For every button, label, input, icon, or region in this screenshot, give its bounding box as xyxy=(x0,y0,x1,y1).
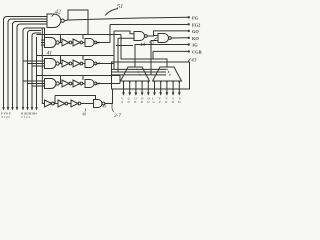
wire bus A2 xyxy=(8,19,47,107)
wire bus B1 xyxy=(23,28,45,107)
arrow terminal A4 xyxy=(16,107,18,110)
end gate 47 xyxy=(85,60,94,68)
wire mux1 input stubs xyxy=(124,81,149,93)
wire corner x68 xyxy=(68,10,88,35)
node CGB xyxy=(188,50,190,52)
wire 1G from mux1 xyxy=(135,45,188,68)
inverter row2 b xyxy=(73,60,80,67)
wire gate45 input vertical xyxy=(150,41,152,75)
wire row1 topline drops xyxy=(61,35,84,43)
wire row4 topline xyxy=(55,96,96,104)
svg-text:CGB: CGB xyxy=(192,49,202,54)
wire gate45 output to KO xyxy=(171,37,187,39)
wire FG2 xyxy=(110,24,188,26)
svg-text:43: 43 xyxy=(191,58,197,64)
wire gate44 output to GO xyxy=(147,31,187,36)
wire long vertical to row4 xyxy=(42,28,44,104)
end gate 48 xyxy=(85,80,94,88)
inverter row3 b xyxy=(73,80,80,87)
wire row4 output xyxy=(105,89,113,104)
leader for 51 xyxy=(105,9,118,16)
box 43 xyxy=(112,62,190,89)
gate 45 xyxy=(158,34,169,43)
wire row4 xyxy=(54,103,58,105)
arrow terminal A3 xyxy=(12,107,14,110)
wire row2 output xyxy=(97,63,114,65)
wire bus A3 xyxy=(13,22,48,108)
node FG xyxy=(188,16,190,18)
wire row1 output xyxy=(97,42,110,44)
wire row1 to inv1 xyxy=(59,42,62,44)
svg-text:42: 42 xyxy=(55,9,61,16)
arrow terminal A1 xyxy=(3,107,5,110)
node 1G xyxy=(188,43,190,45)
wire CGB from mux2 xyxy=(121,35,188,68)
wire row3 nand inputs xyxy=(23,81,45,86)
wire vertical x114 xyxy=(113,31,115,69)
svg-text:0 1 2 3: 0 1 2 3 xyxy=(2,115,11,119)
wire row2 to inv1 xyxy=(59,63,62,65)
wire bus A1 xyxy=(4,17,48,108)
gate 44 xyxy=(134,32,145,41)
mux 1 trapezoid xyxy=(121,67,150,81)
nand gate row2 xyxy=(45,59,57,69)
wire row3 output xyxy=(97,83,120,85)
svg-text:FG: FG xyxy=(192,15,199,20)
wire mux2 input stubs xyxy=(155,81,180,93)
svg-text:FG2: FG2 xyxy=(192,22,200,27)
wire row1 out vertical xyxy=(109,25,111,43)
wire row2 topline xyxy=(37,55,115,57)
arrows mux1 inputs xyxy=(122,93,180,96)
svg-text:2-7: 2-7 xyxy=(114,113,121,119)
inverter row2 a xyxy=(62,60,69,67)
wire bus B4 xyxy=(36,37,38,107)
wire vertical x120 xyxy=(119,74,121,83)
wire vertical x118 xyxy=(117,38,119,72)
nand gate row1 xyxy=(45,38,57,48)
node GO xyxy=(188,30,190,32)
inverter row3 a xyxy=(62,80,69,87)
arrow terminal A2 xyxy=(7,107,9,110)
wire row1 inv1-inv2 xyxy=(72,42,73,44)
wire bus B2 xyxy=(28,31,42,108)
node KO xyxy=(188,37,190,39)
wire gate45 inputs xyxy=(151,36,158,41)
wire row3 to inv1 xyxy=(59,83,62,85)
wire mux select lines xyxy=(112,69,166,75)
inverter row4 b xyxy=(58,100,65,107)
mux 2 trapezoid xyxy=(153,67,182,81)
nand gate row3 xyxy=(45,79,57,89)
wire row2 inv1-inv2 xyxy=(72,63,73,65)
svg-text:1G: 1G xyxy=(192,43,198,48)
node FG2 xyxy=(188,23,190,25)
wire FG line xyxy=(64,17,188,20)
wire row1 topline xyxy=(37,34,122,36)
arrow terminal B1 xyxy=(22,107,24,110)
inverter row4 a xyxy=(45,100,52,107)
wire bus B3 xyxy=(32,33,41,107)
arrow terminal B2 xyxy=(27,107,29,110)
svg-text:KO: KO xyxy=(192,36,199,41)
inverter row1 b xyxy=(73,39,80,46)
arrow terminal B3 xyxy=(31,107,33,110)
wire row3 topline xyxy=(37,75,121,77)
arrow terminal B4 xyxy=(36,107,38,110)
svg-text:GO: GO xyxy=(192,29,199,34)
svg-text:40: 40 xyxy=(82,113,86,117)
end gate 46 xyxy=(85,39,94,47)
wire row3 topline drops xyxy=(61,76,84,84)
inverter row1 a xyxy=(62,39,69,46)
wire row2 nand inputs xyxy=(23,61,45,66)
wire stub under gate44 xyxy=(116,45,133,47)
svg-text:44: 44 xyxy=(140,43,146,48)
end gate 49 xyxy=(94,100,103,108)
gate 42 (NAND) xyxy=(47,14,61,28)
inverter row4 c xyxy=(71,100,78,107)
wire row2 topline drops xyxy=(61,56,84,64)
wire row1 nand inputs xyxy=(41,40,45,45)
svg-text:0 1 2 3: 0 1 2 3 xyxy=(22,115,31,119)
wire row4 to end gate xyxy=(81,103,94,105)
junction dots mux inputs xyxy=(123,69,180,83)
wire bus A4 xyxy=(17,24,47,107)
wire row4 xyxy=(68,103,71,105)
wire row3 inv1-inv2 xyxy=(72,83,73,85)
wire gate44 inputs xyxy=(114,31,134,38)
